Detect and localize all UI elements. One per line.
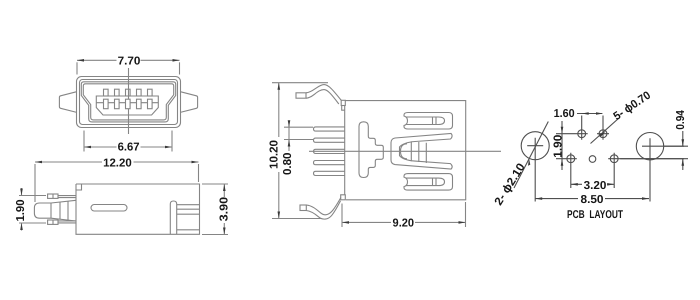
left hole cross (527, 138, 543, 202)
arrow 1.90 top (561, 127, 564, 134)
top slot fold lines (433, 117, 437, 125)
extension bottom 10.20 (272, 218, 322, 220)
plug nose (34, 203, 51, 218)
svg-text:7.70: 7.70 (118, 55, 141, 67)
arrow 0.80 bottom (288, 140, 291, 147)
top leg strip (306, 85, 341, 104)
hole E bottom-right (610, 155, 618, 163)
shell inner outline (80, 80, 178, 125)
svg-text:1.90: 1.90 (553, 135, 565, 158)
pin 5 (314, 171, 345, 175)
pin 3 (314, 149, 345, 153)
extension left 9.20 (341, 204, 343, 228)
arrow 6.67 right (165, 146, 172, 149)
tooth 5 (148, 89, 153, 96)
hole E cross (608, 153, 684, 188)
contact 4 (137, 99, 142, 109)
dim 0.94 line bottom (682, 159, 684, 170)
arrow 9.20 right (459, 221, 466, 224)
top leg foot pad (296, 93, 306, 98)
extension line right of 6.67 (171, 131, 173, 152)
arrow 3.90 bottom (223, 228, 226, 235)
arrow 3.20 right (607, 183, 614, 186)
bottom slot inner (406, 178, 445, 186)
extension line left of 6.67 (83, 131, 85, 152)
arrow 12.20 right (192, 161, 199, 164)
rear line 4 (177, 229, 200, 231)
svg-text:10.20: 10.20 (268, 140, 280, 169)
left wing (59, 92, 76, 113)
tooth 2 (115, 89, 120, 96)
arrow 0.80 top (288, 120, 291, 127)
bottom latch lines (58, 221, 76, 223)
extension lines 0.80 (284, 127, 313, 139)
svg-text:1.60: 1.60 (554, 108, 575, 120)
hole C bottom-left (567, 155, 575, 163)
top slot inner (406, 117, 445, 125)
dim 0.80 line (288, 121, 290, 152)
top-left notch (341, 100, 345, 105)
dimension 6.67 line (84, 146, 172, 148)
oval slot (91, 205, 127, 212)
body outline (345, 101, 465, 200)
pin 4 (314, 161, 345, 165)
bottom latch bump (48, 220, 58, 224)
contact block outline (96, 96, 158, 115)
leader arrow 5-phi0.70 (599, 132, 605, 137)
dimension 7.70 line (77, 59, 180, 61)
bottom-left notch (341, 195, 346, 200)
arrow 12.20 left (35, 161, 42, 164)
contact 3 (126, 99, 131, 109)
tooth 1 (104, 89, 109, 96)
arrow 9.20 left (342, 221, 349, 224)
dim 1.90 arrow bottom (21, 223, 23, 231)
extension lines 3.90 (202, 184, 228, 235)
opening inner line (83, 84, 173, 120)
contact 1 (104, 99, 109, 109)
tooth 3 (126, 89, 131, 96)
extension 0.94 lines (620, 146, 688, 159)
leader 5-phi0.70 (591, 118, 620, 144)
svg-text:0.94: 0.94 (675, 110, 687, 130)
hole A cross (556, 116, 588, 140)
hole B cross (597, 116, 609, 140)
right wing (180, 92, 197, 113)
body outline (76, 184, 200, 234)
bottom leg foot pad (300, 205, 306, 211)
plug body bottom (51, 218, 76, 221)
right mounting hole 2.10 (636, 133, 663, 160)
bottom slot outer (404, 174, 453, 191)
dim 0.94 line top (682, 131, 684, 146)
arrow 3.20 left (571, 183, 578, 186)
svg-text:5- ϕ0.70: 5- ϕ0.70 (612, 89, 654, 122)
hole B top-right (599, 130, 607, 138)
plug divider 2 (59, 202, 61, 219)
rear line 3 (177, 213, 200, 215)
left mounting hole 2.10 (521, 132, 549, 160)
svg-text:0.80: 0.80 (282, 153, 294, 176)
center line vertical (128, 68, 130, 134)
small step below notch (342, 106, 345, 111)
arrow 10.20 top (278, 83, 281, 90)
dim 1.90 line (561, 121, 563, 170)
rear post (170, 201, 176, 234)
bottom leg strip (306, 198, 341, 220)
bottom latch bump divider (52, 220, 54, 224)
bottom slot fold lines (433, 178, 437, 186)
arrow 7.70 left (77, 59, 84, 62)
extension line left of 12.20 (34, 164, 36, 202)
pin 1 (314, 127, 345, 131)
body top-left notch (76, 184, 82, 190)
extension top 10.20 (272, 82, 328, 84)
svg-text:1.90: 1.90 (15, 200, 27, 222)
contact block mid line (96, 102, 158, 104)
arrow 8.50 left (535, 197, 542, 200)
rear line 2 (177, 208, 200, 210)
arrow 0.94 top (682, 139, 685, 146)
shell outer outline (77, 77, 181, 128)
contact 2 (115, 99, 120, 109)
svg-text:8.50: 8.50 (581, 194, 604, 206)
contact 5 (148, 99, 153, 109)
arrow 1.90 bottom (561, 159, 564, 166)
top latch lines (58, 196, 76, 198)
arrow 8.50 right (642, 197, 649, 200)
plug divider 1 (50, 203, 52, 218)
horizontal center line (309, 150, 501, 152)
dim 3.90 line (223, 184, 225, 235)
leader 2-phi2.10 (514, 122, 548, 189)
rear line 1 (177, 204, 200, 206)
pin 2 (314, 138, 345, 142)
clip inner cap (401, 144, 408, 159)
top latch bump (48, 194, 58, 198)
svg-text:9.20: 9.20 (393, 217, 415, 229)
leader arrow 2-phi2.10 (528, 159, 530, 166)
plug body top (51, 200, 76, 203)
arrow 6.67 left (84, 146, 91, 149)
arrow 0.94 bottom (682, 159, 685, 166)
dim 1.60 line (577, 113, 602, 115)
tongue S-shape (359, 122, 383, 178)
clip fold lines (411, 141, 426, 163)
dimension 12.20 line (35, 161, 199, 163)
extension right 9.20 (465, 202, 467, 227)
tooth 4 (137, 89, 142, 96)
extension line right of 12.20 (198, 164, 200, 182)
arrow 3.90 top (223, 184, 226, 191)
dim 1.90 arrow top (21, 188, 23, 196)
hole C cross (556, 153, 577, 188)
body left edge (344, 106, 346, 195)
svg-text:6.67: 6.67 (118, 142, 140, 154)
arrow 1.60 right (596, 112, 603, 115)
top slot outer (404, 113, 453, 130)
svg-text:PCB LAYOUT: PCB LAYOUT (567, 209, 623, 221)
dim 8.50 line (535, 198, 649, 200)
contact clip U-shape (391, 134, 452, 170)
svg-text:2- ϕ2.10: 2- ϕ2.10 (493, 162, 528, 208)
hole D bottom-middle (589, 156, 596, 163)
dim 10.20 line (278, 83, 280, 219)
extension line right of 7.70 (179, 62, 181, 74)
arrow 7.70 right (173, 59, 180, 62)
opening outer line (81, 82, 175, 122)
dim 3.20 line (571, 183, 614, 185)
extension line left of 7.70 (76, 62, 78, 74)
hole A top-left (578, 130, 586, 138)
svg-text:3.90: 3.90 (218, 197, 230, 222)
plug divider 3 (67, 201, 69, 220)
top latch bump divider (52, 194, 54, 198)
arrow 1.60 left (582, 112, 589, 115)
extension lines 1.90 (19, 196, 46, 224)
dim 9.20 line (342, 221, 466, 223)
svg-text:12.20: 12.20 (103, 157, 132, 169)
right hole cross (642, 138, 684, 201)
arrow 10.20 bottom (278, 212, 281, 219)
svg-text:3.20: 3.20 (584, 180, 607, 192)
